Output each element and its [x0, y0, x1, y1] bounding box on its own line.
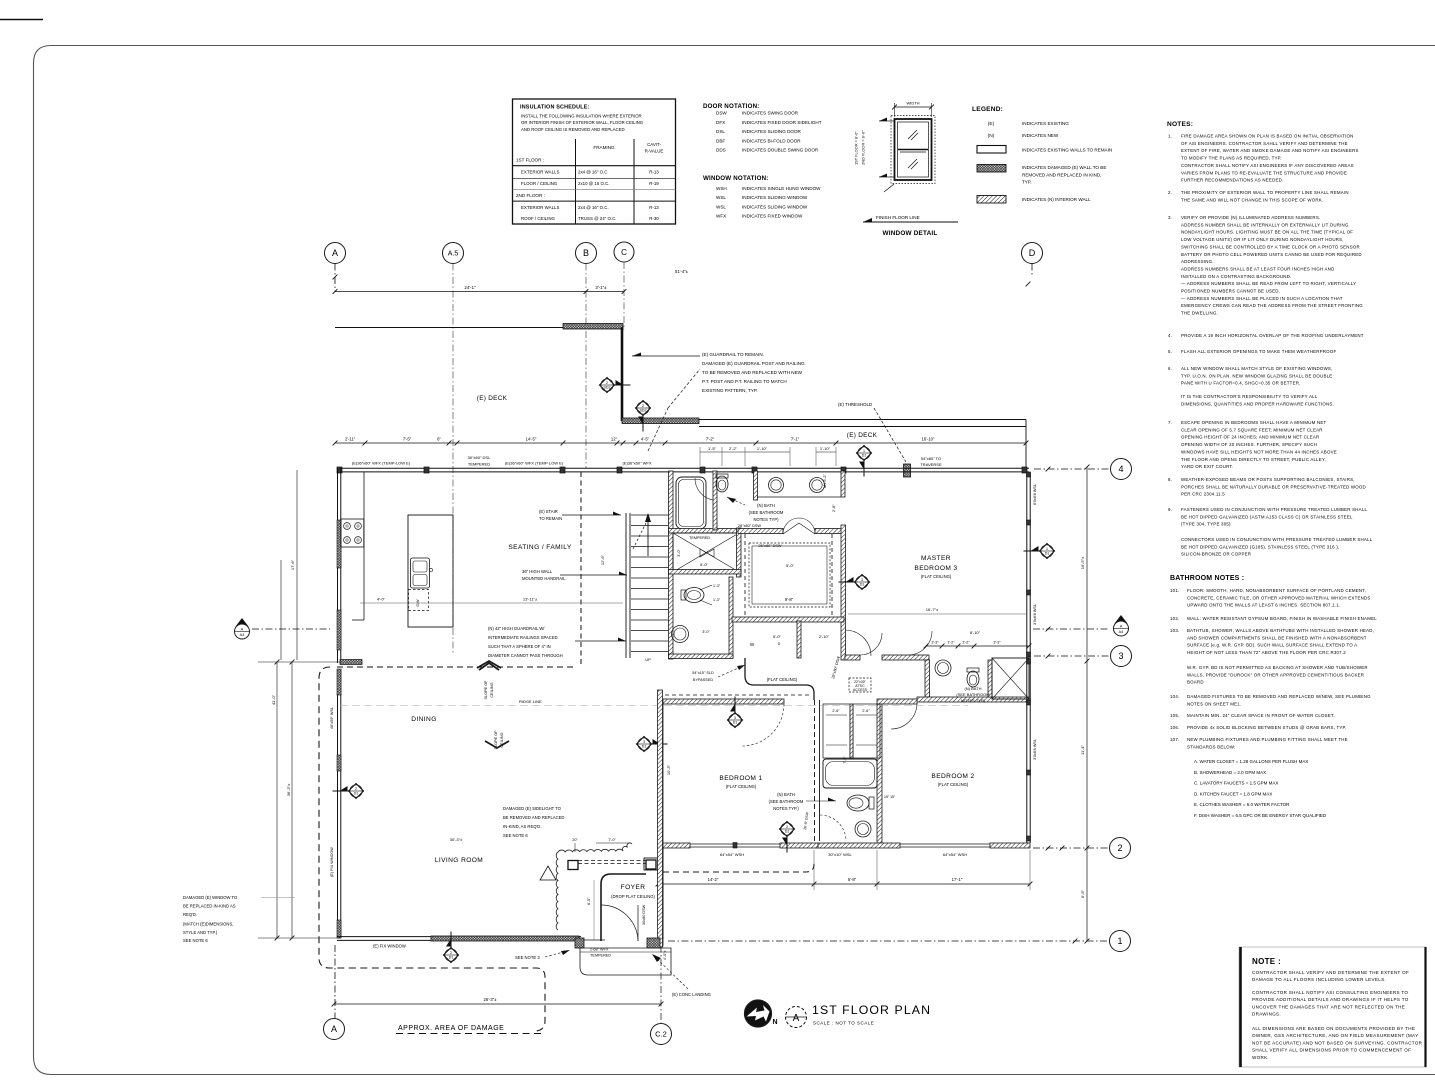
svg-text:CONTRACTOR SHALL NOTIFY ASI EN: CONTRACTOR SHALL NOTIFY ASI ENGINEERS IF…: [1181, 163, 1354, 168]
svg-text:INDICATES FIXED DOOR SIDELIGHT: INDICATES FIXED DOOR SIDELIGHT: [742, 120, 822, 125]
svg-text:ACCESS: ACCESS: [853, 688, 868, 692]
svg-text:4'-5": 4'-5": [641, 437, 650, 442]
svg-text:INDICATES SLIDING WINDOW: INDICATES SLIDING WINDOW: [742, 204, 808, 209]
svg-text:30'-3"±: 30'-3"±: [450, 837, 463, 842]
svg-text:30x80 DSW: 30x80 DSW: [642, 904, 646, 925]
svg-text:BE REMOVED AND REPLACED: BE REMOVED AND REPLACED: [503, 815, 564, 820]
svg-text:BEDROOM 1: BEDROOM 1: [719, 775, 762, 782]
svg-text:D. KITCHEN FAUCET = 1.8 GPM MA: D. KITCHEN FAUCET = 1.8 GPM MAX: [1194, 791, 1272, 796]
svg-text:8'-10": 8'-10": [970, 630, 981, 635]
svg-text:ADDRESS NUMBERS SHALL BE AT LE: ADDRESS NUMBERS SHALL BE AT LEAST FOUR I…: [1181, 266, 1334, 271]
grid line C vertical: [623, 262, 625, 330]
svg-text:ADDRESS NUMBER SHALL BE INTERN: ADDRESS NUMBER SHALL BE INTERNALLY OR EX…: [1181, 222, 1349, 227]
svg-text:(SEE BATHROOM: (SEE BATHROOM: [956, 692, 989, 697]
svg-text:BYPASSED: BYPASSED: [693, 678, 713, 682]
detail marker 2/D1 living: [349, 784, 364, 799]
svg-text:30"x60" DSL: 30"x60" DSL: [468, 455, 491, 460]
svg-text:104.: 104.: [1170, 694, 1179, 699]
svg-text:SHALL VERIFY ALL DIMENSIONS PR: SHALL VERIFY ALL DIMENSIONS PRIOR TO COM…: [1252, 1048, 1411, 1053]
grid bubble A top: [325, 243, 346, 264]
svg-text:A: A: [793, 1013, 800, 1024]
svg-text:54"x15" SLD: 54"x15" SLD: [692, 671, 714, 675]
svg-text:TO BE REMOVED AND REPLACED WIT: TO BE REMOVED AND REPLACED WITH NEW: [702, 370, 803, 375]
svg-text:2x4 @ 16" O.C.: 2x4 @ 16" O.C.: [578, 205, 609, 210]
svg-text:W.R. GYP. BD IS NOT PERMITTED: W.R. GYP. BD IS NOT PERMITTED AS BACKING…: [1187, 665, 1368, 670]
svg-text:5'-0": 5'-0": [773, 634, 782, 639]
svg-text:HEIGHT OF NOT LESS THAN 72" AB: HEIGHT OF NOT LESS THAN 72" ABOVE THE FL…: [1187, 650, 1346, 655]
svg-text:A: A: [331, 1024, 337, 1034]
svg-text:3.: 3.: [1168, 215, 1172, 220]
svg-text:9.: 9.: [1168, 507, 1172, 512]
grid line D vertical: [1031, 264, 1033, 277]
svg-text:FIRE DAMAGE AREA SHOWN ON PLAN: FIRE DAMAGE AREA SHOWN ON PLAN IS BASED …: [1181, 134, 1354, 139]
detail marker 2/D1 bed1: [780, 822, 795, 837]
ridge line: [340, 705, 968, 707]
svg-text:CONCRETE, CERAMIC TILE, OR OTH: CONCRETE, CERAMIC TILE, OR OTHER APPROVE…: [1187, 595, 1371, 600]
svg-text:SD2: SD2: [604, 386, 611, 390]
svg-text:POSITIONED NUMBERS CANNOT BE U: POSITIONED NUMBERS CANNOT BE USED.: [1181, 289, 1280, 294]
svg-text:(FLAT CEILING): (FLAT CEILING): [767, 677, 798, 682]
hall dashed ceiling line: [658, 694, 810, 696]
svg-text:DAMAGED (E) SIDELIGHT TO: DAMAGED (E) SIDELIGHT TO: [503, 806, 562, 811]
right dim line: [1086, 467, 1088, 661]
svg-text:36" HIGH WALL: 36" HIGH WALL: [522, 569, 553, 574]
svg-text:DAMAGED (E) GUARDRAIL POST AND: DAMAGED (E) GUARDRAIL POST AND RAILING: [702, 361, 805, 366]
svg-text:LEGEND:: LEGEND:: [972, 106, 1003, 113]
svg-text:3'-0": 3'-0": [677, 549, 681, 557]
svg-text:3: 3: [861, 578, 863, 582]
svg-text:3'-1"±: 3'-1"±: [595, 285, 607, 290]
svg-text:4.: 4.: [1168, 333, 1172, 338]
living room bottom wall: [337, 936, 581, 938]
walk-in closet: [738, 529, 783, 534]
svg-text:C: C: [621, 248, 627, 257]
svg-text:SEE NOTE 3: SEE NOTE 3: [515, 955, 540, 960]
svg-text:R-13: R-13: [649, 170, 659, 175]
svg-text:EXTERIOR WALLS: EXTERIOR WALLS: [521, 170, 559, 175]
svg-text:2.: 2.: [1168, 190, 1172, 195]
svg-text:BE HOT DIPPED GALVANIZED (ASTM: BE HOT DIPPED GALVANIZED (ASTM A153 CLAS…: [1181, 514, 1353, 519]
svg-text:(E)36"x60" WFX (TEMP-LOW E): (E)36"x60" WFX (TEMP-LOW E): [505, 461, 564, 466]
svg-text:WALL: WATER RESISTANT GYPSUM B: WALL: WATER RESISTANT GYPSUM BOARD, FINI…: [1187, 616, 1377, 621]
svg-text:105.: 105.: [1170, 713, 1179, 718]
svg-text:3: 3: [734, 716, 736, 720]
svg-text:EXISTING PATTERN, TYP.: EXISTING PATTERN, TYP.: [702, 388, 758, 393]
svg-text:MAINTAIN MIN. 24" CLEAR SPACE: MAINTAIN MIN. 24" CLEAR SPACE IN FRONT O…: [1187, 713, 1335, 718]
svg-text:INDICATES SLIDING WINDOW: INDICATES SLIDING WINDOW: [742, 195, 808, 200]
svg-text:7'-6": 7'-6": [843, 756, 847, 764]
svg-text:IN-KIND, AS REQ'D.: IN-KIND, AS REQ'D.: [503, 824, 542, 829]
svg-text:1'-3": 1'-3": [713, 598, 721, 602]
svg-text:1'-2": 1'-2": [947, 641, 955, 645]
svg-text:(E) CONC LANDING: (E) CONC LANDING: [672, 992, 711, 997]
detail marker 3/D1 master: [855, 575, 870, 590]
svg-text:FLOOR / CEILING: FLOOR / CEILING: [521, 181, 558, 186]
svg-text:DSL: DSL: [716, 129, 725, 134]
svg-text:WSL: WSL: [716, 204, 726, 209]
svg-text:UP: UP: [645, 657, 651, 662]
detail marker 3/D1 hall: [637, 737, 652, 752]
svg-text:(FLAT CEILING): (FLAT CEILING): [726, 784, 757, 789]
shower room with X: [669, 529, 742, 534]
svg-text:W: W: [750, 642, 755, 647]
svg-text:SLOPE OF: SLOPE OF: [484, 680, 488, 700]
svg-text:(E)36"x60" WFX: (E)36"x60" WFX: [622, 461, 651, 466]
bottom dimension line: [334, 1003, 661, 1005]
svg-text:24'-1": 24'-1": [464, 285, 476, 290]
svg-text:2: 2: [450, 951, 452, 955]
detail marker 1/D1 master: [1040, 544, 1055, 559]
svg-text:BATHROOM NOTES :: BATHROOM NOTES :: [1170, 575, 1244, 582]
svg-text:7'-0": 7'-0": [608, 838, 616, 842]
svg-text:64"x54" WSH: 64"x54" WSH: [943, 852, 967, 857]
svg-text:1.: 1.: [1168, 134, 1172, 139]
grid bubble 2 right: [1110, 838, 1131, 859]
svg-text:5'-0": 5'-0": [786, 563, 795, 568]
svg-text:P.T. POST AND P.T. RAILING TO: P.T. POST AND P.T. RAILING TO MATCH: [702, 379, 787, 384]
svg-text:INTERMEDIATE RAILINGS SPACED: INTERMEDIATE RAILINGS SPACED: [488, 635, 558, 640]
svg-text:TO REMAIN: TO REMAIN: [539, 516, 562, 521]
svg-text:EXTERIOR WALLS: EXTERIOR WALLS: [521, 205, 559, 210]
svg-text:INSULATION SCHEDULE:: INSULATION SCHEDULE:: [520, 105, 590, 111]
svg-text:(E) STAIR: (E) STAIR: [539, 509, 558, 514]
svg-text:NONDAYLIGHT HOURS. LIGHTING MU: NONDAYLIGHT HOURS. LIGHTING MUST BE ON A…: [1181, 230, 1353, 235]
svg-text:REQ'D.: REQ'D.: [183, 912, 197, 917]
svg-text:SUCH THAT A SPHERE OF 4" IN: SUCH THAT A SPHERE OF 4" IN: [488, 644, 551, 649]
svg-text:AND SHOWER COMPARTMENTS SHALL: AND SHOWER COMPARTMENTS SHALL BE FINISHE…: [1187, 635, 1367, 640]
svg-text:17'-6": 17'-6": [290, 559, 295, 570]
svg-text:26'-3"±: 26'-3"±: [484, 997, 498, 1002]
svg-text:INDICATES NEW: INDICATES NEW: [1022, 133, 1059, 138]
svg-text:SD2: SD2: [640, 409, 647, 413]
svg-text:FRAMING: FRAMING: [593, 145, 615, 150]
svg-text:15" 15": 15" 15": [884, 795, 896, 799]
grid bubble D top: [1022, 243, 1043, 264]
grid line C.2 vertical: [660, 878, 662, 1023]
svg-text:INDICATES EXISTING: INDICATES EXISTING: [1022, 121, 1069, 126]
svg-text:INDICATES EXISTING WALLS TO RE: INDICATES EXISTING WALLS TO REMAIN: [1022, 148, 1112, 153]
svg-text:1'-10": 1'-10": [820, 446, 831, 451]
svg-text:ALL NEW WINDOW SHALL MATCH STY: ALL NEW WINDOW SHALL MATCH STYLE OF EXIS…: [1181, 366, 1333, 371]
svg-text:UNCOVER THE DAMAGES THAT ARE N: UNCOVER THE DAMAGES THAT ARE NOT REFLECT…: [1252, 1004, 1405, 1009]
svg-text:BOARD: BOARD: [1187, 680, 1204, 685]
svg-text:PROVIDE 4x SOLID BLOCKING BETW: PROVIDE 4x SOLID BLOCKING BETWEEN STUDS …: [1187, 725, 1347, 730]
concrete landing: [580, 948, 671, 975]
svg-text:(E) DECK: (E) DECK: [847, 432, 878, 439]
svg-text:DAMAGE TO ALL FLOORS INCLUDING: DAMAGE TO ALL FLOORS INCLUDING LOWER LEV…: [1252, 977, 1386, 982]
grid bubble A.5 top: [443, 243, 464, 264]
svg-text:6'0x6'8 WSL: 6'0x6'8 WSL: [1033, 484, 1037, 505]
svg-text:D1: D1: [860, 583, 865, 587]
svg-text:WSL: WSL: [716, 195, 726, 200]
svg-text:64"x54" WSH: 64"x54" WSH: [720, 852, 744, 857]
svg-text:R-30: R-30: [649, 216, 659, 221]
svg-text:NOTES TYP): NOTES TYP): [753, 517, 779, 522]
svg-text:INDICATES SLIDING DOOR: INDICATES SLIDING DOOR: [742, 129, 802, 134]
svg-text:THE PROXIMITY OF EXTERIOR WALL: THE PROXIMITY OF EXTERIOR WALL TO PROPER…: [1181, 190, 1349, 195]
revision triangle: [540, 866, 556, 880]
grid bubble 3 right: [1111, 646, 1132, 667]
svg-text:CAVIT-: CAVIT-: [647, 142, 661, 147]
svg-text:WORK.: WORK.: [1252, 1055, 1269, 1060]
svg-text:WINDOWS HAVE SILL HEIGHTS NOT: WINDOWS HAVE SILL HEIGHTS NOT MORE THAN …: [1181, 449, 1337, 454]
svg-text:CONTRACTOR SHALL VERIFY AND DE: CONTRACTOR SHALL VERIFY AND DETERMINE TH…: [1252, 970, 1409, 975]
svg-text:SEATING / FAMILY: SEATING / FAMILY: [508, 544, 572, 551]
svg-text:INSTALL THE FOLLOWING INSULATI: INSTALL THE FOLLOWING INSULATION WHERE E…: [521, 114, 642, 119]
svg-text:NOTES:: NOTES:: [1167, 121, 1193, 128]
svg-text:(E) DECK: (E) DECK: [477, 395, 508, 402]
svg-text:DIAMETER CANNOT PASS THROUGH: DIAMETER CANNOT PASS THROUGH: [488, 653, 563, 658]
master bath: [845, 655, 860, 660]
svg-text:TEMPERED: TEMPERED: [468, 462, 490, 467]
svg-text:INDICATES FIXED WINDOW: INDICATES FIXED WINDOW: [742, 214, 803, 219]
kitchen island with sink and dishwasher: [408, 515, 453, 627]
svg-text:EMERGENCY CREWS CAN READ THE A: EMERGENCY CREWS CAN READ THE ADDRESS FRO…: [1181, 303, 1363, 308]
svg-text:E. CLOTHES WASHER = 6.0 WATER: E. CLOTHES WASHER = 6.0 WATER FACTOR: [1194, 802, 1290, 807]
svg-text:TO MODIFY THE PLANS AS REQUIRE: TO MODIFY THE PLANS AS REQUIRED, TYP.: [1181, 156, 1282, 161]
svg-text:(E)36"x60" WFX (TEMP-LOW E): (E)36"x60" WFX (TEMP-LOW E): [352, 461, 411, 466]
svg-text:1'-2": 1'-2": [962, 641, 970, 645]
svg-text:INDICATES (N) INTERIOR WALL: INDICATES (N) INTERIOR WALL: [1022, 197, 1091, 202]
svg-text:UPWARD ONTO THE WALLS AT LEAST: UPWARD ONTO THE WALLS AT LEAST 6 INCHES.…: [1187, 603, 1340, 608]
svg-text:OF ASI ENGINEERS. CONTRACTOR S: OF ASI ENGINEERS. CONTRACTOR SAHLL VERIF…: [1181, 141, 1348, 146]
svg-text:(SEE BATHROOM: (SEE BATHROOM: [769, 799, 804, 804]
svg-text:(E) THRESHOLD: (E) THRESHOLD: [838, 402, 872, 407]
svg-text:SILICON-BRONZE OR COPPER: SILICON-BRONZE OR COPPER: [1181, 552, 1251, 557]
grid line B vertical: [585, 264, 587, 469]
svg-text:SEE NOTE 6: SEE NOTE 6: [503, 833, 528, 838]
svg-text:12": 12": [611, 437, 618, 442]
svg-text:17'-1": 17'-1": [952, 877, 963, 882]
svg-text:A4: A4: [1119, 630, 1124, 634]
svg-text:BATTERY OR PHOTO CELL POWERED: BATTERY OR PHOTO CELL POWERED UNITS CANN…: [1181, 252, 1362, 257]
svg-text:(FLAT CEILING): (FLAT CEILING): [921, 574, 952, 579]
svg-text:3: 3: [643, 740, 645, 744]
svg-text:C. LAVATORY FAUCETS = 1.5 GPM: C. LAVATORY FAUCETS = 1.5 GPM MAX: [1194, 781, 1278, 786]
svg-text:DFX: DFX: [716, 120, 725, 125]
svg-text:3'-3": 3'-3": [993, 641, 1001, 645]
dimension line A to C: [335, 291, 624, 293]
svg-text:(DROP FLAT CEILING): (DROP FLAT CEILING): [611, 894, 655, 899]
svg-text:BEDROOM 3: BEDROOM 3: [914, 565, 957, 572]
top-left margin tick: [0, 19, 43, 21]
deck dimension row: [335, 442, 1026, 444]
svg-text:WFX: WFX: [716, 214, 726, 219]
svg-text:(N) BATH: (N) BATH: [777, 792, 795, 797]
svg-text:5'-8": 5'-8": [848, 877, 857, 882]
svg-text:C.2: C.2: [655, 1030, 667, 1039]
svg-text:STYLE AND TYP.): STYLE AND TYP.): [183, 930, 218, 935]
svg-text:RIDGE LINE: RIDGE LINE: [519, 699, 542, 704]
svg-text:D1: D1: [354, 792, 359, 796]
svg-text:M1 5'-2": M1 5'-2": [823, 473, 827, 488]
svg-text:CLEAR OPENING OF 5.7 SQUARE FE: CLEAR OPENING OF 5.7 SQUARE FEET; MINIMU…: [1181, 427, 1323, 432]
svg-text:2'-11": 2'-11": [345, 437, 356, 442]
svg-text:YARD OR EXIT COURT.: YARD OR EXIT COURT.: [1181, 464, 1233, 469]
svg-text:CEILING: CEILING: [490, 682, 494, 697]
svg-text:101.: 101.: [1170, 588, 1179, 593]
svg-text:TRUSS @ 24" O.C.: TRUSS @ 24" O.C.: [578, 216, 616, 221]
svg-text:14'-2": 14'-2": [708, 877, 719, 882]
svg-text:(TYPE 304, TYPE 305): (TYPE 304, TYPE 305): [1181, 522, 1231, 527]
svg-text:10'-3": 10'-3": [666, 764, 671, 775]
svg-text:26"x80" DSW: 26"x80" DSW: [759, 544, 782, 548]
detail marker 2/D1 bottom: [444, 948, 459, 963]
svg-text:ROOF / CEILING: ROOF / CEILING: [521, 216, 555, 221]
svg-text:INDICATES SINGLE HUNG WINDOW: INDICATES SINGLE HUNG WINDOW: [742, 186, 821, 191]
svg-text:36'-3"±: 36'-3"±: [286, 783, 291, 796]
svg-text:DBF: DBF: [716, 138, 725, 143]
svg-text:DAMAGED (E) WINDOW TO: DAMAGED (E) WINDOW TO: [183, 895, 238, 900]
foyer walls and entry door: [568, 861, 578, 870]
svg-text:106.: 106.: [1170, 725, 1179, 730]
svg-text:14'-5": 14'-5": [526, 437, 537, 442]
svg-text:INDICATES BI-FOLD DOOR: INDICATES BI-FOLD DOOR: [742, 138, 801, 143]
svg-text:(E) FIX WINDOW: (E) FIX WINDOW: [373, 944, 406, 949]
svg-text:9'-8": 9'-8": [785, 597, 794, 602]
svg-text:8.: 8.: [1168, 477, 1172, 482]
seating bottom dashed boundary: [337, 666, 573, 668]
grid line A vertical: [334, 264, 336, 293]
svg-text:BE HOT DIPPED GALVANIZED (G185: BE HOT DIPPED GALVANIZED (G185), STAINLE…: [1181, 544, 1339, 549]
left dimension lines: [276, 662, 278, 938]
svg-text:1'-5": 1'-5": [708, 446, 717, 451]
grid bubble B top: [576, 243, 597, 264]
svg-text:SWITCHING SHALL BE CONTROLLED: SWITCHING SHALL BE CONTROLLED BY A TIME …: [1181, 244, 1360, 249]
detail marker 1/D1 at deck: [857, 446, 872, 461]
kitchen left exterior wall: [337, 468, 339, 663]
svg-text:5.: 5.: [1168, 349, 1172, 354]
svg-text:DRAWINGS.: DRAWINGS.: [1252, 1012, 1281, 1017]
svg-text:103.: 103.: [1170, 628, 1179, 633]
svg-text:TYP. U.O.N. ON PLAN. NEW WINDO: TYP. U.O.N. ON PLAN. NEW WINDOW GLAZING …: [1181, 373, 1332, 378]
svg-text:1ST FLOOR :: 1ST FLOOR :: [516, 158, 544, 163]
svg-text:DAMAGED FIXTURES TO BE REMOVED: DAMAGED FIXTURES TO BE REMOVED AND REPLA…: [1187, 694, 1371, 699]
svg-text:CONTRACTOR SHALL NOTIFY ASI CO: CONTRACTOR SHALL NOTIFY ASI CONSULTING E…: [1252, 990, 1408, 995]
svg-text:5'-0": 5'-0": [700, 562, 709, 567]
title 1ST FLOOR PLAN with north arrow: [745, 1000, 772, 1027]
svg-text:PROVIDE ADDITIONAL DETAILS AND: PROVIDE ADDITIONAL DETAILS AND DRAWINGS …: [1252, 997, 1409, 1002]
svg-text:1: 1: [1046, 547, 1048, 551]
bedroom1 lower wall corner: [658, 843, 663, 939]
svg-text:1'-3": 1'-3": [713, 584, 721, 588]
svg-text:6": 6": [437, 437, 441, 442]
deck boundary and damaged guardrail walls: [335, 327, 563, 329]
svg-text:— ADDRESS NUMBERS SHALL BE REA: — ADDRESS NUMBERS SHALL BE READ FROM LEF…: [1181, 281, 1356, 286]
svg-text:7'-5": 7'-5": [403, 437, 412, 442]
svg-text:THE FLOOR AND OPENS DIRECTLY T: THE FLOOR AND OPENS DIRECTLY TO STREET, …: [1181, 457, 1326, 462]
living room left wall: [337, 669, 339, 938]
detail marker 2/SD2 lower: [636, 401, 651, 416]
svg-text:4: 4: [1118, 464, 1123, 474]
svg-text:B: B: [583, 248, 589, 258]
damage cloud: [556, 852, 558, 930]
svg-text:TYP.: TYP.: [1022, 180, 1032, 185]
svg-text:SEE NOTE 6: SEE NOTE 6: [183, 938, 208, 943]
svg-text:INSTALLED ON A CONTRASTING BAC: INSTALLED ON A CONTRASTING BACKGROUND.: [1181, 274, 1292, 279]
svg-text:IT IS THE CONTRACTOR'S RESPONS: IT IS THE CONTRACTOR'S RESPONSIBILITY TO…: [1181, 394, 1318, 399]
svg-text:51'-4"±: 51'-4"±: [675, 269, 689, 274]
svg-text:54"x80" TO: 54"x80" TO: [921, 456, 941, 461]
svg-text:TEMPERED: TEMPERED: [689, 536, 710, 540]
svg-text:AND ROOF CEILING IS REMOVED AN: AND ROOF CEILING IS REMOVED AND REPLACED: [521, 127, 625, 132]
svg-text:2: 2: [642, 404, 644, 408]
svg-text:WSH: WSH: [716, 186, 727, 191]
svg-text:(N) BATH: (N) BATH: [757, 503, 775, 508]
svg-text:(FLAT CEILING): (FLAT CEILING): [938, 782, 969, 787]
svg-text:A4: A4: [240, 633, 245, 637]
svg-text:ALL DIMENSIONS ARE BASED ON DO: ALL DIMENSIONS ARE BASED ON DOCUMENTS PR…: [1252, 1026, 1415, 1031]
svg-text:OPENING HEIGHT OF 24 INCHES; A: OPENING HEIGHT OF 24 INCHES; AND MINIMUM…: [1181, 435, 1319, 440]
svg-text:TRAVERSE: TRAVERSE: [920, 462, 942, 467]
detail marker 2/SD2 upper: [600, 378, 615, 393]
svg-text:FOYER: FOYER: [621, 884, 646, 891]
svg-text:1ST FLOOR = 8'-0": 1ST FLOOR = 8'-0": [854, 131, 859, 165]
svg-text:INDICATES DAMAGED (E) WALL TO: INDICATES DAMAGED (E) WALL TO BE: [1022, 165, 1106, 170]
svg-text:30"x10" WSL: 30"x10" WSL: [828, 852, 852, 857]
svg-text:1: 1: [863, 449, 865, 453]
svg-text:(E) GUARDRAIL TO REMAIN.: (E) GUARDRAIL TO REMAIN.: [702, 352, 764, 357]
svg-text:3'0x6'8 WSL: 3'0x6'8 WSL: [1033, 739, 1037, 760]
svg-text:STANDARDS BELOW:: STANDARDS BELOW:: [1187, 744, 1236, 749]
svg-text:2x4 @ 16" O.C: 2x4 @ 16" O.C: [578, 170, 607, 175]
svg-text:DDS: DDS: [716, 148, 726, 153]
svg-text:2: 2: [355, 787, 357, 791]
svg-text:FASTENERS USED IN CONJUNCTION: FASTENERS USED IN CONJUNCTION WITH PRESS…: [1181, 507, 1367, 512]
svg-text:D: D: [1029, 248, 1036, 258]
svg-text:16'-7"±: 16'-7"±: [926, 607, 939, 612]
threshold block: [904, 464, 911, 477]
svg-text:D1: D1: [1045, 552, 1050, 556]
grid bubble C top: [614, 242, 634, 262]
svg-text:D1: D1: [785, 830, 790, 834]
svg-text:2'-6": 2'-6": [832, 709, 840, 713]
svg-text:WINDOW DETAIL: WINDOW DETAIL: [882, 230, 937, 237]
bedroom 1: [658, 699, 784, 704]
svg-text:BATHTUB, SHOWER, WALLS ABOVE B: BATHTUB, SHOWER, WALLS ABOVE BATHTUBS WI…: [1187, 628, 1374, 633]
svg-text:102.: 102.: [1170, 616, 1179, 621]
svg-text:A: A: [332, 248, 338, 258]
center wall and bathtub: [669, 471, 674, 659]
svg-text:4'-0"±: 4'-0"±: [663, 950, 667, 960]
svg-text:FLOOR: SMOOTH, HARD, NONABSORB: FLOOR: SMOOTH, HARD, NONABSORBENT SURFAC…: [1187, 588, 1366, 593]
svg-text:2: 2: [1117, 843, 1122, 853]
svg-text:THE DWELLING.: THE DWELLING.: [1181, 311, 1218, 316]
svg-text:MOUNTED HANDRAIL: MOUNTED HANDRAIL: [522, 576, 566, 581]
svg-text:2'-6": 2'-6": [862, 709, 870, 713]
svg-text:PORCHES SHALL BE NATURALLY DUR: PORCHES SHALL BE NATURALLY DURABLE OR PR…: [1181, 484, 1366, 489]
svg-text:NOTES TYP.): NOTES TYP.): [773, 806, 799, 811]
svg-text:WINDOW NOTATION:: WINDOW NOTATION:: [703, 175, 769, 182]
svg-text:11'-4": 11'-4": [1080, 744, 1085, 754]
svg-text:1: 1: [1117, 936, 1122, 946]
svg-text:2ND FLOOR = 8'-0": 2ND FLOOR = 8'-0": [861, 130, 866, 165]
svg-text:20": 20": [572, 838, 578, 842]
svg-text:DSW: DSW: [716, 111, 727, 116]
grid line A.5 vertical: [452, 264, 454, 656]
svg-text:6.: 6.: [1168, 366, 1172, 371]
svg-text:PANE WITH U FACTOR=0.4, SHGC=0: PANE WITH U FACTOR=0.4, SHGC=0.35 OR BET…: [1181, 381, 1301, 386]
window detail drawing: [895, 119, 932, 180]
svg-text:INDICATES SWING DOOR: INDICATES SWING DOOR: [742, 111, 799, 116]
svg-text:N: N: [773, 1019, 778, 1026]
svg-text:3'-0": 3'-0": [702, 630, 710, 634]
svg-text:FINISH FLOOR LINE: FINISH FLOOR LINE: [876, 215, 920, 220]
svg-text:NOT BE ACCURATE) AND NOT BASED: NOT BE ACCURATE) AND NOT BASED ON SURVEY…: [1252, 1040, 1423, 1045]
svg-text:3'-3": 3'-3": [931, 641, 939, 645]
foyer right wall and thresholds: [658, 690, 663, 947]
kitchen counter edge: [363, 472, 365, 620]
